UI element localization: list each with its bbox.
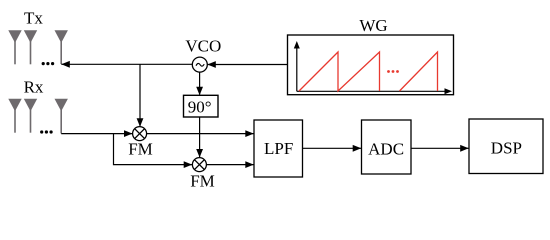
arrowhead into mixer 2 top — [196, 149, 203, 158]
svg-text:FM: FM — [190, 172, 215, 191]
svg-text:FM: FM — [128, 140, 153, 159]
wire Rx antenna to mixer 1 — [61, 133, 132, 135]
WG vertical axis arrowhead — [294, 41, 300, 49]
mixer 1 — [133, 127, 147, 141]
Rx dots — [40, 130, 53, 133]
wire ADC to DSP — [411, 147, 469, 149]
svg-text:WG: WG — [359, 16, 387, 35]
WG red sawtooth 3 — [400, 52, 438, 91]
WG red sawtooth 1 and 2 — [299, 52, 380, 91]
box LPF — [254, 120, 303, 177]
arrowhead into 90 box — [196, 87, 203, 96]
arrowhead into LPF input 2 — [245, 161, 254, 168]
VCO sine symbol — [196, 63, 204, 66]
wire branch down to mixer 2 — [114, 134, 193, 165]
Tx antenna 3 — [55, 30, 68, 64]
box DSP — [469, 119, 543, 174]
wire 90 box down to mixer 2 — [199, 117, 201, 157]
Rx antenna 1 — [8, 99, 21, 133]
wire WG to VCO — [208, 64, 288, 66]
wire LPF to ADC — [303, 147, 362, 149]
WG horizontal axis — [297, 90, 449, 92]
arrowhead into LPF input 1 — [245, 130, 254, 137]
mixer 2 — [192, 158, 206, 172]
Rx antenna 3 — [55, 99, 68, 134]
WG red dots — [387, 70, 399, 73]
arrowhead into Tx antenna — [61, 61, 70, 68]
arrowhead into mixer 2 left — [184, 161, 193, 168]
wire VCO to Tx — [61, 63, 192, 65]
box 90deg — [184, 95, 219, 117]
svg-text:ADC: ADC — [368, 139, 404, 158]
WG horizontal axis arrowhead — [445, 88, 453, 94]
wire mixer 1 to LPF — [147, 133, 254, 135]
box ADC — [362, 120, 412, 174]
Rx antenna 2 — [24, 99, 37, 133]
svg-text:Rx: Rx — [24, 78, 44, 97]
op VCO circle — [192, 57, 207, 72]
wire VCO down to 90 box — [199, 72, 201, 95]
Tx antenna 2 — [24, 30, 37, 64]
arrowhead into VCO — [207, 61, 216, 68]
svg-text:Tx: Tx — [24, 9, 43, 28]
Tx dots — [42, 62, 55, 65]
arrowhead into mixer 1 left — [124, 130, 133, 137]
box WG — [288, 35, 454, 95]
arrowhead into mixer 1 top — [137, 118, 144, 127]
arrowhead into DSP — [460, 145, 469, 152]
WG vertical axis — [296, 44, 298, 91]
Tx antenna 1 — [8, 30, 21, 64]
wire mixer 2 to LPF — [206, 164, 253, 166]
svg-text:90°: 90° — [188, 97, 212, 116]
svg-text:DSP: DSP — [491, 139, 522, 158]
svg-text:VCO: VCO — [185, 37, 221, 56]
wire branch VCO line down to mixer 1 — [139, 64, 141, 126]
svg-text:LPF: LPF — [264, 139, 293, 158]
arrowhead into ADC — [353, 145, 362, 152]
